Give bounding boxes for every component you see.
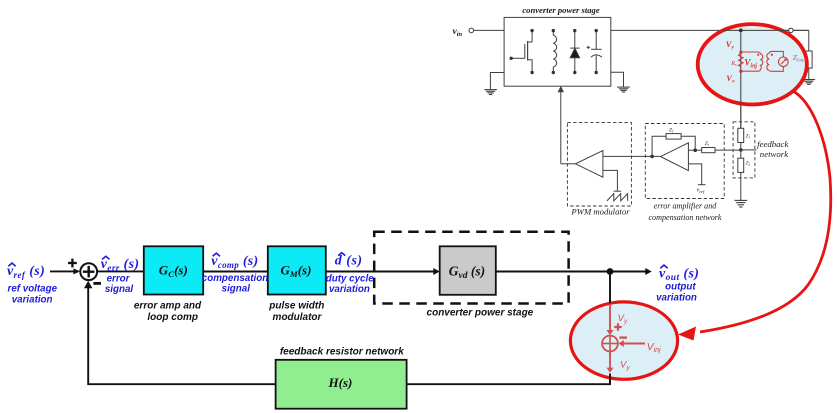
resistor Zf	[666, 134, 681, 140]
node op-amp output	[650, 155, 654, 159]
svg-text:PWM modulator: PWM modulator	[570, 207, 630, 217]
svg-text:GC(s): GC(s)	[159, 263, 188, 280]
arrowhead feedback into summing	[84, 281, 92, 288]
inductor L1	[553, 31, 556, 73]
node output junction (top)	[739, 29, 743, 33]
wire output branch down	[609, 272, 611, 308]
svg-text:error: error	[107, 273, 131, 284]
wire Zi to divider	[715, 149, 741, 151]
svg-text:loop comp: loop comp	[147, 312, 198, 323]
wire non-inverting input to vref	[688, 164, 701, 185]
terminal v_out (top)	[789, 28, 793, 32]
node inverting input	[693, 148, 697, 152]
svg-text:Gvd (s): Gvd (s)	[449, 263, 485, 281]
svg-text:ref voltage: ref voltage	[8, 283, 58, 294]
transistor Q1 (MOSFET)	[511, 31, 532, 73]
svg-text:variation: variation	[12, 294, 53, 305]
svg-text:duty cycle: duty cycle	[326, 274, 374, 285]
injection highlight ellipse (top)	[698, 24, 807, 104]
red pointer curve	[700, 91, 831, 332]
transformer secondary loop	[742, 52, 763, 71]
wire left ground stem	[490, 73, 504, 90]
block H	[276, 360, 407, 409]
arrowhead v_out	[645, 268, 651, 275]
svg-text:feedback resistor network: feedback resistor network	[280, 347, 404, 358]
svg-text:variation: variation	[656, 292, 697, 303]
box feedback network (dashed)	[733, 122, 755, 178]
ground below Zload	[803, 80, 816, 85]
svg-text:pulse width: pulse width	[268, 301, 324, 312]
svg-text:feedback: feedback	[757, 139, 789, 149]
svg-text:vref (s): vref (s)	[7, 264, 45, 280]
plus sign (red)	[614, 326, 621, 328]
wire comparator output	[561, 163, 576, 165]
injection highlight ellipse (bottom)	[570, 302, 677, 379]
wire through ellipse (redrawn)	[723, 29, 809, 31]
sawtooth ramp symbol	[607, 194, 628, 201]
op-amp U1	[661, 143, 689, 171]
block G_M	[268, 246, 326, 294]
resistor Zi	[702, 148, 715, 153]
resistor Rs (zigzag)	[739, 54, 744, 67]
wire ramp input	[603, 170, 618, 191]
arrowhead into summing junction	[73, 268, 80, 274]
diode D1	[570, 31, 579, 73]
ground left of power stage	[484, 90, 497, 95]
wire feedback bottom	[407, 374, 610, 385]
wire summing to Gc	[97, 270, 144, 272]
svg-text:converter power stage: converter power stage	[427, 308, 534, 319]
label v_out(s)	[656, 265, 699, 303]
node output junction (block diagram)	[607, 268, 614, 275]
label d(s)	[326, 253, 374, 295]
ground below feedback divider	[735, 200, 748, 207]
svg-text:Z2: Z2	[746, 162, 751, 167]
wire exit ellipse	[609, 374, 611, 385]
node feedback tap	[739, 148, 743, 152]
wire Gvd to output	[496, 271, 646, 273]
wire right ground stem	[611, 72, 624, 87]
wire vref input	[50, 270, 75, 272]
wire feedback tap	[741, 149, 757, 151]
wire duty-cycle drive with arrow into power stage	[560, 92, 562, 164]
box PWM modulator (dashed)	[567, 123, 631, 206]
box converter power stage (dashed, block diagram)	[374, 232, 568, 304]
resistor Zload	[806, 51, 813, 68]
svg-text:error amp and: error amp and	[134, 301, 202, 312]
red injection arrows	[610, 304, 645, 369]
summing junction	[80, 263, 97, 280]
wire v_in to box	[474, 29, 505, 31]
block G_C	[144, 246, 203, 294]
svg-text:converter power stage: converter power stage	[522, 5, 600, 15]
svg-text:modulator: modulator	[273, 312, 323, 323]
wire Zload branch	[808, 30, 810, 51]
wire feedback column	[740, 30, 742, 128]
label v_ref(s)	[7, 263, 58, 305]
capacitor C1	[587, 31, 602, 73]
wire Zf loop	[652, 136, 666, 156]
svg-text:Zi: Zi	[705, 141, 709, 147]
label v_comp(s)	[202, 253, 268, 294]
arrowhead into Gvd	[433, 268, 439, 275]
red pointer arrowhead	[678, 327, 696, 341]
svg-text:output: output	[665, 281, 696, 292]
wire Gc to Gm	[203, 271, 268, 273]
wire box to output corner	[611, 29, 809, 31]
resistor Z1	[738, 128, 744, 142]
wire op-amp output	[603, 155, 661, 157]
converter power stage box	[504, 17, 611, 86]
wire Gm to Gvd	[326, 271, 435, 273]
svg-text:verr (s): verr (s)	[101, 257, 140, 273]
svg-text:Rs: Rs	[730, 61, 737, 67]
svg-text:signal: signal	[105, 284, 134, 295]
svg-text:network: network	[760, 149, 789, 159]
resistor Z2	[738, 158, 744, 172]
ground right of power stage	[617, 87, 630, 92]
svg-text:compensation: compensation	[202, 273, 268, 284]
svg-text:variation: variation	[329, 284, 370, 295]
svg-text:Z1: Z1	[746, 135, 751, 140]
svg-text:error amplifier and: error amplifier and	[654, 202, 718, 211]
block G_vd	[440, 246, 496, 294]
svg-text:signal: signal	[222, 284, 251, 295]
injection nodes	[739, 51, 742, 54]
summing circle (injection)	[602, 336, 618, 352]
source V_inj circle	[779, 57, 789, 67]
wire into ellipse redrawn	[609, 300, 611, 305]
terminal v_in	[469, 28, 474, 33]
minus sign at feedback	[93, 282, 101, 285]
box error amplifier (dashed)	[645, 124, 724, 199]
svg-text:H(s): H(s)	[328, 375, 353, 390]
comparator U2	[576, 151, 603, 178]
transformer primary loop and source	[767, 51, 783, 71]
minus sign (red)	[619, 336, 627, 338]
plus sign at input	[68, 262, 77, 264]
label v_err(s)	[101, 256, 140, 295]
svg-text:compensation network: compensation network	[648, 213, 721, 222]
polarity dots	[757, 54, 759, 56]
wire inverting input	[688, 149, 701, 151]
